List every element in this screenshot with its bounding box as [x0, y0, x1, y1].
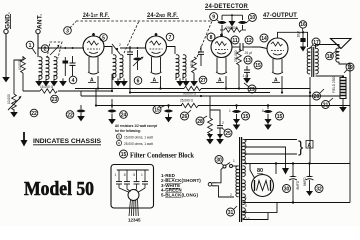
- wire mid: [210, 110, 220, 115]
- svg-text:1: 1: [233, 159, 235, 163]
- callout 19: [344, 63, 354, 73]
- callout 8: [207, 33, 215, 41]
- svg-text:3: 3: [245, 139, 247, 143]
- gang capacitor dashed box 1: [47, 42, 62, 58]
- grid cap right (black): [238, 15, 247, 30]
- svg-text:1: 1: [115, 173, 117, 177]
- svg-text:10,000: 10,000: [18, 60, 22, 70]
- AC plug: [208, 183, 216, 187]
- svg-text:13: 13: [245, 58, 251, 64]
- callout 10: [246, 13, 256, 23]
- svg-text:29: 29: [249, 87, 255, 93]
- svg-text:Filter Condenser Block: Filter Condenser Block: [130, 151, 195, 160]
- grid cap left (black): [217, 15, 226, 37]
- svg-text:7: 7: [245, 197, 247, 201]
- switch: [223, 159, 236, 168]
- ground arrows row stage1: [35, 78, 43, 86]
- grommet circle: [128, 190, 139, 201]
- svg-text:.5: .5: [133, 173, 136, 177]
- voice coil: [336, 48, 339, 62]
- svg-text:30: 30: [284, 186, 290, 192]
- svg-text:8: 8: [245, 204, 247, 208]
- junction dots bus: [111, 90, 113, 92]
- label 47-OUTPUT: [263, 12, 298, 19]
- svg-text:INDICATES CHASSIS: INDICATES CHASSIS: [33, 138, 102, 145]
- interstage coil secondary: [120, 55, 123, 78]
- plate wire t2: [167, 47, 176, 55]
- svg-text:Model 50: Model 50: [24, 179, 94, 200]
- callout 20: [313, 89, 325, 100]
- svg-text:7: 7: [169, 35, 172, 41]
- cap .1uf det: [242, 66, 250, 78]
- plug wiring: [217, 168, 224, 183]
- callout 26: [181, 110, 192, 120]
- primary winding: [236, 166, 239, 197]
- callout 14: [260, 34, 268, 42]
- callout 13 det: [244, 56, 252, 64]
- bus B+ top: [75, 74, 112, 91]
- svg-text:8: 8: [210, 35, 213, 41]
- black cap near 24: [107, 106, 116, 120]
- plate wire t4 up: [278, 32, 308, 47]
- callout 1: [26, 41, 36, 54]
- svg-text:23: 23: [52, 97, 58, 103]
- fixed cap stage1: [70, 56, 76, 76]
- svg-text:28: 28: [197, 119, 203, 125]
- svg-text:4: 4: [245, 145, 247, 149]
- filament secondaries: [243, 166, 246, 177]
- svg-text:10: 10: [250, 15, 256, 21]
- svg-text:2: 2: [222, 121, 224, 125]
- svg-text:10,000: 10,000: [7, 94, 11, 104]
- callout 2: [41, 45, 49, 53]
- callout 21: [322, 98, 334, 109]
- label 24-2ND R.F.: [147, 12, 179, 19]
- svg-text:.5: .5: [261, 109, 264, 113]
- grid leak resistor 250000: [220, 26, 246, 32]
- svg-text:15,000 Ω: 15,000 Ω: [40, 85, 54, 89]
- grid wire stage2: [120, 47, 146, 49]
- svg-text:25: 25: [225, 131, 231, 137]
- black cap mid: [164, 106, 173, 118]
- label 24-DETECTOR: [205, 3, 249, 10]
- power transformer: [236, 137, 245, 222]
- antenna coil third: [54, 57, 57, 80]
- svg-text:4: 4: [72, 78, 75, 84]
- svg-text:25,000 ohms, 1 watt: 25,000 ohms, 1 watt: [124, 142, 153, 146]
- callout 13 mid: [153, 106, 165, 114]
- svg-text:27: 27: [200, 78, 206, 84]
- svg-text:9: 9: [212, 14, 215, 20]
- svg-text:24-DETECTOR: 24-DETECTOR: [205, 3, 248, 10]
- callout 27: [199, 76, 207, 84]
- svg-text:3: 3: [66, 28, 69, 34]
- callout 11: [231, 36, 239, 44]
- svg-text:250,000: 250,000: [226, 26, 238, 30]
- svg-text:18: 18: [327, 54, 333, 60]
- chassis arrow top: [282, 168, 289, 175]
- dashed gang link line: [76, 20, 213, 22]
- cap 1 in block: [116, 170, 122, 188]
- svg-text:6: 6: [137, 78, 140, 84]
- callout 5: [100, 34, 108, 42]
- plate wire t1: [104, 47, 112, 55]
- cap 32: [303, 164, 314, 197]
- wire ant down: [37, 48, 39, 57]
- svg-text:22: 22: [67, 112, 73, 118]
- svg-text:24-1ST R.F.: 24-1ST R.F.: [83, 12, 109, 19]
- svg-text:25,000 Ω: 25,000 Ω: [180, 99, 194, 103]
- callout 31: [227, 206, 238, 216]
- cathode cap 22b: [66, 111, 74, 119]
- antenna coil primary: [39, 57, 42, 80]
- filter cap 15 right: [261, 106, 273, 125]
- bias resistor det: [190, 57, 196, 80]
- callout 24: [120, 111, 128, 119]
- cap 2 in block: [124, 170, 130, 189]
- svg-text:22: 22: [31, 111, 37, 117]
- det input coil secondary: [183, 55, 186, 78]
- svg-text:24: 24: [121, 112, 127, 118]
- A bracket: [298, 139, 313, 156]
- svg-text:11: 11: [232, 38, 238, 44]
- svg-text:}: }: [298, 139, 304, 156]
- bus screen: [22, 87, 24, 91]
- svg-text:15,000 ohms, 1 watt: 15,000 ohms, 1 watt: [124, 136, 153, 140]
- det input coil primary: [176, 55, 179, 78]
- svg-text:15: 15: [154, 107, 160, 113]
- HV wires to rectifier: [243, 163, 350, 165]
- callout 7: [166, 33, 174, 41]
- resistor R ant 10000: [21, 57, 26, 73]
- bottom wire: [293, 202, 350, 204]
- speaker horn: [331, 39, 352, 49]
- bus lower long: [96, 89, 182, 106]
- svg-text:10: 10: [246, 217, 250, 221]
- label 24-1ST R.F.: [82, 12, 110, 19]
- trimmer diag t1: [112, 43, 121, 54]
- output transformer: [307, 47, 318, 77]
- svg-text:30: 30: [216, 157, 222, 163]
- svg-text:24-2ND R.F.: 24-2ND R.F.: [147, 12, 178, 19]
- trimmer cap with arrow stage2: [133, 50, 144, 70]
- callout 12: [245, 36, 253, 44]
- plate resistor 250000 vertical: [234, 49, 241, 88]
- interstage coil primary: [113, 55, 116, 78]
- svg-text:16: 16: [300, 22, 306, 28]
- callout 30 switch: [215, 156, 223, 166]
- antenna coil secondary: [46, 57, 49, 80]
- cap 3 in block: [134, 170, 140, 189]
- svg-text:20: 20: [314, 94, 320, 100]
- screen cap det: [198, 46, 204, 66]
- svg-text:5: 5: [102, 35, 105, 41]
- coupling cap 12-14: [240, 43, 252, 55]
- svg-text:31: 31: [228, 210, 234, 216]
- wires out of grommet: [129, 200, 131, 217]
- svg-text:26: 26: [182, 114, 188, 120]
- screen cap stage2: [127, 46, 133, 66]
- svg-text:1: 1: [141, 173, 143, 177]
- top tie wire: [222, 14, 243, 16]
- cap 4 in block: [142, 170, 148, 188]
- svg-text:2: 2: [119, 43, 121, 47]
- svg-text:2: 2: [44, 46, 47, 52]
- filament taps to right: [243, 202, 294, 204]
- callout 3 dashed pointer: [64, 22, 76, 35]
- svg-text:47-OUTPUT: 47-OUTPUT: [263, 12, 297, 19]
- callout 18: [326, 51, 336, 60]
- resistor vert 28: [207, 110, 213, 139]
- svg-text:250,000: 250,000: [234, 50, 238, 62]
- svg-text:2: 2: [230, 193, 232, 197]
- svg-text:15: 15: [277, 114, 283, 120]
- callout 17: [310, 38, 320, 48]
- svg-text:6: 6: [245, 162, 247, 166]
- HV secondary: [243, 139, 246, 163]
- svg-text:MEG.: MEG.: [190, 60, 194, 68]
- callout 22: [30, 109, 38, 117]
- callout 15 det: [254, 61, 262, 69]
- svg-text:16µf: 16µf: [297, 31, 301, 37]
- svg-text:ANT.: ANT.: [37, 14, 44, 29]
- callout 4: [69, 76, 77, 84]
- node box wire: [14, 56, 23, 93]
- svg-text:12: 12: [246, 38, 252, 44]
- tone cap 16: [297, 31, 307, 51]
- svg-text:for the following:: for the following:: [115, 129, 141, 133]
- svg-text:1: 1: [29, 43, 32, 49]
- dashed gang link to det: [197, 21, 212, 57]
- mid cap arrow: [229, 15, 236, 30]
- callout 16: [299, 21, 306, 31]
- svg-text:5-BLACK(LONG): 5-BLACK(LONG): [161, 193, 198, 198]
- rectifier tube: [252, 175, 274, 197]
- svg-text:All resistors 1/2 watt except: All resistors 1/2 watt except: [115, 124, 158, 128]
- grid stopper to 14: [252, 47, 267, 49]
- svg-text:80: 80: [257, 168, 263, 174]
- callout 6: [134, 77, 142, 85]
- speaker connect wires: [339, 62, 350, 203]
- svg-text:15: 15: [121, 152, 127, 158]
- plate wire det: [232, 46, 240, 48]
- svg-text:8MFD: 8MFD: [303, 177, 307, 186]
- svg-text:FIELD 2500: FIELD 2500: [332, 76, 336, 93]
- cap 30: [289, 164, 300, 203]
- svg-text:.01 µf: .01 µf: [244, 51, 252, 55]
- resistor 15000 with callout 23: [23, 85, 75, 93]
- transformer tap labels: [245, 139, 250, 222]
- svg-text:5: 5: [245, 152, 247, 156]
- svg-text:8MFD: 8MFD: [296, 180, 300, 189]
- resistor 90000: [183, 86, 201, 95]
- svg-text:15: 15: [243, 114, 249, 120]
- svg-text:12345: 12345: [128, 218, 141, 223]
- callout 29: [244, 83, 256, 93]
- svg-text:14: 14: [261, 36, 267, 42]
- filter cap 15 left: [229, 106, 241, 125]
- ground arrow under GND: [2, 74, 10, 82]
- tube cathode drops: [97, 76, 99, 89]
- grid wire stage1: [38, 48, 84, 57]
- callout 9: [210, 13, 220, 23]
- padder capacitor black: [63, 57, 69, 76]
- svg-text:15: 15: [255, 63, 261, 69]
- callout 25: [222, 128, 232, 137]
- black cap near 22b: [76, 105, 85, 116]
- callout 28: [196, 116, 207, 125]
- svg-text:1: 1: [229, 109, 231, 113]
- svg-text:32: 32: [316, 186, 322, 192]
- svg-text:9: 9: [245, 210, 247, 214]
- svg-text:.5: .5: [123, 173, 126, 177]
- cap 2uf: [217, 115, 224, 139]
